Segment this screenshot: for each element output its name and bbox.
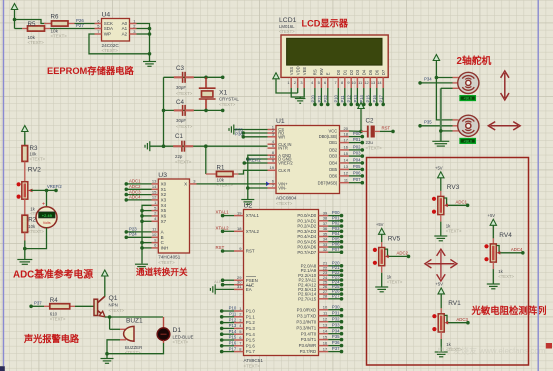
svg-text:P12: P12: [229, 317, 237, 322]
svg-text:C1: C1: [175, 133, 183, 140]
capacitor C2 22u: [361, 118, 382, 151]
power symbol (R3): [22, 126, 28, 146]
svg-text:P27: P27: [76, 23, 84, 28]
wires ADC1-ADC4 to X0-X3: [125, 179, 152, 202]
svg-text:P07: P07: [353, 177, 361, 182]
crystal X1: [199, 77, 240, 110]
svg-text:RV2: RV2: [28, 167, 41, 174]
wires LCD RS/RW/E nets: [310, 88, 329, 106]
wire U1 DB0..DB7 nets P00-P07: [349, 131, 364, 184]
svg-text:22p: 22p: [175, 154, 183, 159]
svg-text:VDD: VDD: [295, 66, 300, 75]
svg-text:18: 18: [344, 131, 349, 136]
wire servo ground rail: [439, 88, 453, 141]
svg-text:11: 11: [358, 80, 362, 85]
wire RV2 wiper VREF/2: [31, 184, 62, 192]
arrow vertical (servo): [501, 71, 509, 100]
svg-text:P22: P22: [323, 94, 328, 102]
svg-text:+90.0: +90.0: [464, 140, 473, 144]
servo motor 1: [453, 72, 479, 100]
svg-text:X3: X3: [161, 198, 167, 203]
wire WR net P36: [235, 131, 267, 138]
wire PSEN terminal: [221, 278, 234, 282]
wire WP to ground loop: [89, 34, 150, 54]
capacitor C3 30pF: [174, 65, 194, 96]
svg-text:10: 10: [323, 305, 328, 310]
ground (EA pin): [210, 284, 234, 294]
svg-text:电子发烧友 www.elecfans.com: 电子发烧友 www.elecfans.com: [437, 346, 546, 356]
svg-text:VEE: VEE: [302, 67, 307, 76]
svg-text:P27: P27: [332, 293, 340, 298]
eeprom U4 24C02C: [95, 12, 137, 54]
svg-text:DB3: DB3: [329, 154, 338, 159]
svg-text:P34: P34: [332, 328, 340, 333]
svg-text:12: 12: [152, 195, 157, 200]
svg-text:ADC基准参考电源: ADC基准参考电源: [13, 268, 93, 281]
svg-text:LCD显示器: LCD显示器: [302, 19, 349, 29]
svg-text:<TEXT>: <TEXT>: [50, 316, 66, 321]
voltmeter: [25, 190, 57, 248]
ground (alarm): [101, 359, 114, 364]
svg-text:C4: C4: [176, 99, 184, 106]
svg-text:P32: P32: [332, 316, 340, 321]
probe VIN+: [266, 182, 270, 187]
svg-text:<TEXT>: <TEXT>: [28, 40, 45, 45]
wire XTAL1 net: [216, 210, 235, 218]
svg-text:<TEXT>: <TEXT>: [102, 48, 119, 53]
svg-text:<TEXT>: <TEXT>: [279, 29, 295, 34]
wire servo1 VCC: [436, 77, 452, 79]
wire XTAL1 row: [164, 76, 225, 80]
svg-text:34: 34: [323, 237, 328, 242]
svg-text:13: 13: [323, 323, 328, 328]
svg-text:+2.49: +2.49: [42, 213, 53, 218]
svg-text:ADC0804: ADC0804: [276, 196, 297, 201]
svg-text:18: 18: [237, 226, 242, 231]
wire ALE terminal: [214, 279, 234, 287]
svg-text:17: 17: [323, 346, 328, 351]
svg-text:13: 13: [371, 80, 375, 85]
power symbol (RST): [358, 103, 364, 132]
resistor R2 10k: [22, 199, 44, 234]
svg-text:P3.7/RD: P3.7/RD: [300, 349, 317, 354]
wire U4 A0-A2 tied: [137, 24, 152, 62]
svg-text:VIN-: VIN-: [278, 186, 287, 191]
wire XTAL2 row: [162, 109, 225, 113]
svg-text:D0: D0: [336, 69, 341, 75]
adc U1 ADC0804: [268, 118, 350, 206]
svg-text:NPN: NPN: [109, 303, 118, 308]
svg-text:C2: C2: [366, 118, 374, 125]
wire P34 signal: [418, 77, 452, 85]
svg-text:X2: X2: [161, 192, 167, 197]
svg-text:<TEXT>: <TEXT>: [30, 157, 46, 162]
svg-text:<TEXT>: <TEXT>: [387, 280, 403, 285]
svg-text:P0.5/AD5: P0.5/AD5: [297, 239, 316, 244]
svg-text:SDA: SDA: [104, 26, 113, 31]
pot RV1 (bottom): [432, 281, 469, 356]
svg-text:P17: P17: [379, 94, 384, 102]
svg-text:P01: P01: [353, 137, 361, 142]
title LCD: [302, 19, 349, 29]
svg-text:16: 16: [323, 340, 328, 345]
ground (C1): [145, 141, 150, 151]
svg-text:CRYSTAL: CRYSTAL: [219, 97, 239, 102]
svg-text:P1.7: P1.7: [246, 349, 256, 354]
wire power to R5/R6: [13, 11, 46, 29]
svg-text:R5: R5: [28, 21, 36, 28]
svg-text:31: 31: [237, 284, 242, 289]
wires U2 P0 nets: [328, 210, 343, 254]
mux U3 74HC4051: [152, 172, 197, 265]
svg-text:P13: P13: [229, 323, 237, 328]
svg-text:P04: P04: [353, 157, 361, 162]
svg-text:D2: D2: [349, 69, 354, 75]
wire R4 to Q1 base: [75, 305, 94, 307]
svg-text:2: 2: [294, 80, 296, 85]
svg-text:P37: P37: [332, 346, 340, 351]
pot RV5 (left): [373, 222, 411, 292]
pot RV4 (right): [484, 213, 524, 289]
svg-text:VREF/2: VREF/2: [246, 157, 261, 162]
ground (U3): [135, 264, 148, 269]
led D1 LED-BLUE: [107, 317, 194, 354]
svg-text:P34: P34: [424, 77, 432, 82]
svg-text:+5V: +5V: [376, 222, 384, 227]
svg-text:VREF/2: VREF/2: [278, 161, 293, 166]
svg-text:P3.5/T1: P3.5/T1: [301, 337, 317, 342]
svg-text:X1: X1: [161, 187, 167, 192]
capacitor C4 30pF: [174, 99, 194, 129]
svg-text:<TEXT>: <TEXT>: [51, 33, 68, 38]
svg-text:X6: X6: [161, 214, 167, 219]
svg-text:X7: X7: [161, 219, 167, 224]
svg-text:INTR: INTR: [278, 146, 288, 151]
ground (ADC): [241, 200, 254, 205]
svg-text:P30: P30: [332, 304, 340, 309]
svg-text:P3.6/WR: P3.6/WR: [299, 343, 317, 348]
wire cap ground rail: [162, 77, 166, 148]
svg-text:P36: P36: [235, 131, 243, 136]
svg-text:P36: P36: [332, 340, 340, 345]
svg-text:P24: P24: [129, 232, 137, 237]
svg-text:XTAL1: XTAL1: [246, 213, 260, 218]
svg-text:P16: P16: [372, 94, 377, 102]
resistor R5: [15, 21, 51, 45]
svg-text:12: 12: [344, 171, 349, 176]
svg-text:P37: P37: [34, 301, 42, 306]
svg-text:ADC1: ADC1: [129, 179, 141, 184]
box photoresistor array: [367, 158, 529, 366]
ground (reference): [17, 260, 32, 265]
svg-text:P15: P15: [229, 335, 237, 340]
wire emitter node: [105, 315, 163, 329]
svg-text:DB0(LSB): DB0(LSB): [319, 134, 338, 139]
svg-text:P33: P33: [332, 322, 340, 327]
svg-text:ADC1: ADC1: [456, 200, 468, 205]
svg-text:P1.0: P1.0: [246, 309, 256, 314]
svg-text:XTAL2: XTAL2: [216, 225, 230, 230]
title 2-axis servo: [457, 54, 492, 67]
svg-text:声光报警电路: 声光报警电路: [23, 333, 80, 344]
svg-text:P00: P00: [353, 131, 361, 136]
svg-text:P3.0/RXD: P3.0/RXD: [297, 307, 317, 312]
svg-text:+5V: +5V: [435, 281, 443, 286]
svg-text:28: 28: [323, 294, 328, 299]
wire R6 to U4 SCK, net P26: [75, 18, 95, 24]
svg-text:R6: R6: [51, 14, 59, 21]
svg-text:<TEXT>: <TEXT>: [176, 124, 193, 129]
svg-text:BUZ1: BUZ1: [126, 318, 143, 325]
svg-text:P0.1/AD1: P0.1/AD1: [297, 218, 316, 223]
svg-text:P3.2/INT0: P3.2/INT0: [296, 319, 316, 324]
svg-text:8: 8: [341, 80, 343, 85]
svg-text:P03: P03: [353, 151, 361, 156]
svg-text:74HC4051: 74HC4051: [158, 255, 180, 260]
resistor R1 10k: [206, 146, 239, 187]
svg-text:30pF: 30pF: [176, 118, 186, 123]
svg-text:P15: P15: [366, 94, 371, 102]
svg-text:P0.7/AD7: P0.7/AD7: [297, 250, 316, 255]
svg-text:P3.4/T0: P3.4/T0: [301, 331, 317, 336]
svg-text:A1: A1: [122, 26, 128, 31]
svg-text:7: 7: [335, 80, 337, 85]
svg-text:D1: D1: [173, 327, 182, 334]
svg-text:U2: U2: [244, 203, 253, 210]
svg-text:EEPROM存储器电路: EEPROM存储器电路: [47, 65, 134, 76]
svg-text:16: 16: [344, 145, 349, 150]
svg-text:P07: P07: [332, 247, 340, 252]
svg-text:DB5: DB5: [329, 167, 338, 172]
power symbol VCC (EEPROM): [11, 4, 17, 12]
pot RV3 (top): [432, 165, 470, 241]
svg-text:15: 15: [344, 151, 349, 156]
svg-text:D6: D6: [374, 69, 379, 75]
svg-text:P16: P16: [229, 341, 237, 346]
svg-text:D3: D3: [355, 69, 360, 75]
svg-text:U4: U4: [102, 12, 111, 19]
svg-text:A2: A2: [122, 32, 128, 37]
svg-text:P10: P10: [229, 306, 237, 311]
wire R1 to CLKR: [239, 170, 268, 174]
svg-text:<TEXT>: <TEXT>: [446, 229, 462, 234]
svg-text:D1: D1: [342, 69, 347, 75]
svg-text:13: 13: [152, 179, 157, 184]
wire VSS/VEE to ground: [291, 88, 304, 99]
svg-text:15: 15: [323, 334, 328, 339]
svg-text:ADC2: ADC2: [129, 184, 141, 189]
svg-text:DB6: DB6: [329, 174, 338, 179]
svg-text:DB2: DB2: [329, 148, 338, 153]
wires X4-X7,C,INH ground rail: [140, 205, 151, 263]
svg-text:XTAL1: XTAL1: [216, 210, 230, 215]
svg-text:<TEXT>: <TEXT>: [219, 102, 236, 107]
svg-text:P3.1/TXD: P3.1/TXD: [297, 313, 316, 318]
svg-text:14: 14: [152, 184, 157, 189]
arrows cross (array): [425, 249, 457, 281]
arrow horizontal (servo): [488, 122, 520, 130]
svg-text:VREF/2: VREF/2: [47, 184, 62, 189]
svg-text:13: 13: [344, 164, 349, 169]
svg-text:1: 1: [287, 80, 289, 85]
svg-text:RV4: RV4: [499, 232, 512, 239]
svg-text:ADC2: ADC2: [397, 251, 409, 256]
svg-text:VSS: VSS: [289, 67, 294, 76]
svg-text:P1.2: P1.2: [246, 320, 256, 325]
svg-text:RV5: RV5: [388, 236, 401, 243]
svg-text:WR: WR: [278, 134, 285, 139]
svg-text:<TEXT>: <TEXT>: [28, 229, 44, 234]
edge red mark: [546, 343, 552, 349]
svg-text:P05: P05: [353, 164, 361, 169]
svg-text:<TEXT>: <TEXT>: [173, 340, 189, 345]
title photoresistor array: [471, 305, 547, 316]
svg-text:ADC3: ADC3: [129, 189, 141, 194]
svg-text:RW: RW: [319, 68, 324, 75]
svg-text:R4: R4: [50, 297, 58, 304]
buzzer BUZ1: [110, 318, 143, 355]
watermark: [437, 346, 546, 356]
svg-text:D4: D4: [361, 69, 366, 75]
svg-text:<TEXT>: <TEXT>: [176, 91, 193, 96]
resistor R3 10k: [22, 145, 46, 162]
svg-text:B: B: [161, 235, 164, 240]
svg-text:19: 19: [237, 210, 242, 215]
svg-text:P35: P35: [424, 120, 432, 125]
svg-text:P31: P31: [332, 310, 340, 315]
svg-text:<TEXT>: <TEXT>: [366, 146, 383, 151]
power symbol (Q1): [102, 270, 108, 297]
wire XTAL2 net: [216, 225, 235, 233]
svg-text:P1.1: P1.1: [246, 314, 256, 319]
svg-text:P13: P13: [353, 94, 358, 102]
svg-text:EA: EA: [246, 287, 252, 292]
svg-text:P1.3: P1.3: [246, 326, 256, 331]
svg-text:RS: RS: [313, 69, 318, 75]
svg-text:19: 19: [270, 165, 275, 170]
svg-text:CLK R: CLK R: [278, 168, 290, 173]
svg-text:14: 14: [344, 158, 349, 163]
svg-text:ADC4: ADC4: [129, 195, 141, 200]
svg-text:P17: P17: [229, 346, 237, 351]
svg-text:<TEXT>: <TEXT>: [276, 201, 293, 206]
wire RST net: [380, 125, 395, 133]
wire P37 net: [29, 301, 44, 309]
svg-text:INH: INH: [161, 246, 169, 251]
svg-text:通道转换开关: 通道转换开关: [136, 266, 188, 277]
svg-text:R1: R1: [217, 164, 225, 171]
title EEPROM: [47, 65, 134, 76]
svg-text:P35: P35: [332, 334, 340, 339]
svg-text:P1.4: P1.4: [246, 332, 256, 337]
svg-text:P10: P10: [334, 94, 339, 102]
svg-text:D5: D5: [368, 69, 373, 75]
svg-text:WP: WP: [104, 32, 111, 37]
svg-text:ALE: ALE: [214, 279, 222, 284]
ground (CS pin): [229, 125, 268, 135]
lcd LCD1 LM016L: [279, 17, 388, 88]
svg-text:+5V: +5V: [435, 165, 443, 170]
sheet border left: [3, 0, 5, 366]
wire R5 to U4 SDA, net P27: [50, 23, 95, 29]
power symbol (servos): [433, 55, 452, 120]
sheet border right: [537, 0, 539, 371]
svg-text:光敏电阻检测阵列: 光敏电阻检测阵列: [471, 305, 547, 316]
resistor R4: [44, 297, 75, 322]
wires LCD D0-D7 nets: [334, 88, 385, 106]
svg-text:P14: P14: [229, 329, 237, 334]
wire R2 to ground: [23, 232, 27, 259]
wire RD net P35: [235, 128, 267, 135]
svg-text:<TEXT>: <TEXT>: [498, 274, 514, 279]
svg-text:+5V: +5V: [488, 213, 496, 218]
svg-text:U3: U3: [158, 172, 167, 179]
svg-text:12: 12: [323, 317, 328, 322]
svg-text:2轴舵机: 2轴舵机: [457, 54, 492, 67]
svg-text:14: 14: [323, 329, 328, 334]
svg-text:C3: C3: [176, 65, 184, 72]
svg-text:+90.0: +90.0: [464, 97, 473, 101]
svg-text:P12: P12: [347, 94, 352, 102]
wires U2 P2 nets: [328, 260, 343, 300]
sheet corner mark: [0, 366, 5, 371]
svg-text:<TEXT>: <TEXT>: [158, 260, 175, 265]
wire U1 VCC: [349, 130, 363, 134]
svg-text:15: 15: [152, 189, 157, 194]
wire C1 row to ADC CLKIN: [150, 144, 268, 148]
svg-text:D7: D7: [381, 69, 386, 75]
svg-text:X4: X4: [161, 203, 167, 208]
svg-text:Volts: Volts: [43, 221, 51, 225]
svg-text:DB7(MSB): DB7(MSB): [318, 180, 338, 185]
wires P1.0-P1.7 nets: [220, 306, 237, 354]
svg-text:12: 12: [364, 80, 368, 85]
svg-text:P11: P11: [229, 312, 237, 317]
svg-text:U1: U1: [276, 118, 285, 125]
svg-text:38: 38: [323, 216, 328, 221]
mcu U2 AT89C51: [234, 203, 328, 369]
capacitor C1 22p: [173, 133, 193, 165]
svg-text:RV3: RV3: [447, 184, 460, 191]
svg-text:9: 9: [347, 80, 349, 85]
svg-text:ADC3: ADC3: [456, 317, 468, 322]
wire buzzer to ground: [105, 340, 120, 358]
svg-text:RST: RST: [216, 245, 225, 250]
svg-text:P06: P06: [353, 170, 361, 175]
wire P35 signal: [418, 120, 452, 128]
svg-text:P21: P21: [317, 94, 322, 102]
wire R3 to RV2: [24, 161, 26, 181]
svg-text:<TEXT>: <TEXT>: [109, 308, 125, 313]
svg-text:VCC: VCC: [329, 129, 338, 134]
svg-text:P1.5: P1.5: [246, 338, 256, 343]
svg-text:RST: RST: [382, 125, 391, 130]
svg-text:X1: X1: [219, 90, 228, 97]
svg-text:32: 32: [323, 247, 328, 252]
svg-text:P11: P11: [340, 95, 345, 103]
title channel switch: [136, 266, 188, 277]
svg-text:DB1: DB1: [329, 140, 338, 145]
svg-text:P14: P14: [359, 94, 364, 102]
svg-text:22u: 22u: [366, 140, 374, 145]
svg-text:XTAL2: XTAL2: [246, 229, 260, 234]
svg-text:E: E: [325, 72, 330, 75]
transistor Q1 NPN: [94, 295, 125, 317]
svg-text:5: 5: [318, 80, 320, 85]
title alarm: [23, 333, 80, 344]
svg-text:P3.3/INT1: P3.3/INT1: [296, 325, 316, 330]
svg-text:P20: P20: [310, 94, 315, 102]
